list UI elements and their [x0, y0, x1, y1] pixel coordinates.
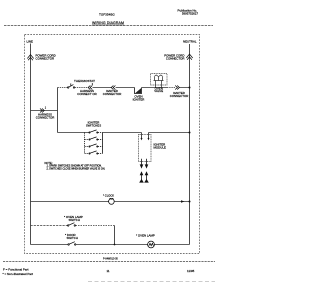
svg-text:MODULE: MODULE [154, 146, 166, 150]
power cord connector P2 (neutral side) [186, 54, 192, 60]
oven igniter (glowbar) [135, 88, 142, 94]
oven lamp switch [68, 223, 76, 227]
wire [76, 225, 115, 227]
wire to module [103, 132, 142, 134]
spark electrode [140, 172, 142, 175]
header rule [4, 25, 213, 27]
module pin N [148, 133, 150, 138]
harness connector 1 [40, 109, 44, 113]
svg-text:TGF354BG: TGF354BG [99, 12, 115, 16]
wire L1 bus [30, 44, 32, 245]
svg-text:SWITCHES: SWITCHES [86, 123, 101, 127]
svg-text:SWITCH: SWITCH [67, 236, 78, 240]
wire [93, 87, 112, 89]
junction [189, 132, 191, 134]
wire lamp switch row [31, 225, 68, 227]
svg-text:2: 2 [92, 83, 94, 86]
svg-text:* = Non-Illustrated Part: * = Non-Illustrated Part [3, 272, 34, 276]
svg-text:SWITCH: SWITCH [69, 218, 80, 222]
wire igniter switch row [58, 132, 90, 134]
wire [58, 87, 68, 89]
connector arrow [181, 200, 184, 202]
svg-text:11: 11 [106, 269, 109, 273]
svg-text:2. SWITCHES CLOSE WHEN BURNER: 2. SWITCHES CLOSE WHEN BURNER VALVE IS O… [47, 167, 106, 170]
svg-text:* OVEN LAMP: * OVEN LAMP [136, 233, 155, 237]
wire [75, 87, 88, 89]
wire clock row [31, 201, 109, 203]
svg-text:* CLOCK: * CLOCK [103, 193, 114, 197]
oven valve V1 [151, 74, 168, 86]
svg-text:1: 1 [45, 106, 47, 109]
harness connector 2 [88, 86, 92, 90]
igniter module U1 [139, 135, 152, 162]
svg-text:NEUTRAL: NEUTRAL [183, 40, 197, 44]
igniter connector right [175, 86, 179, 90]
power cord connector P1 (line side) [27, 55, 33, 61]
igniter switches (4 parallel spark switches) [85, 130, 103, 154]
svg-text:VALVE: VALVE [154, 89, 163, 93]
junction [114, 244, 116, 246]
svg-text:5995752627: 5995752627 [182, 12, 198, 16]
svg-text:11/95: 11/95 [187, 269, 195, 273]
svg-text:LINE: LINE [27, 40, 33, 44]
bottom faint dashes [88, 281, 215, 283]
wire [180, 87, 190, 89]
thermostat switch [68, 83, 75, 88]
junction [189, 87, 191, 89]
svg-text:IGNITER: IGNITER [133, 98, 145, 102]
oven lamp [148, 241, 155, 248]
clock motor [109, 198, 115, 204]
wire [114, 201, 189, 203]
wire [116, 87, 135, 89]
wire [154, 244, 189, 246]
junction [189, 201, 191, 203]
door switch [68, 242, 76, 246]
svg-text:CONNECTOR: CONNECTOR [170, 94, 189, 98]
svg-text:CONNECT OR: CONNECT OR [77, 92, 96, 96]
spark switch 3 [85, 146, 89, 148]
wire branch x57.5 [57, 88, 59, 133]
spark switch 2 [85, 139, 89, 141]
svg-text:CONNECTOR: CONNECTOR [36, 56, 55, 60]
svg-text:CONNECTOR: CONNECTOR [103, 92, 122, 96]
svg-text:CONNECTOR: CONNECTOR [166, 56, 185, 60]
wire neutral bus [189, 44, 191, 245]
module pin L [141, 133, 143, 138]
svg-text:CONNECTOR: CONNECTOR [36, 115, 55, 119]
module bottom pins / spark gaps [140, 159, 148, 182]
wire module to neutral [149, 132, 190, 134]
wire [76, 244, 148, 246]
spark switch 4 [85, 153, 89, 155]
svg-text:P-94W013-05: P-94W013-05 [103, 257, 118, 260]
wire [142, 87, 168, 89]
wire door row [31, 244, 69, 246]
footer rule [3, 261, 215, 263]
wire down to door row [114, 226, 116, 245]
igniter connector left [111, 86, 115, 90]
svg-text:WIRING DIAGRAM: WIRING DIAGRAM [92, 21, 124, 25]
spark electrode [145, 172, 147, 175]
wire harness row [31, 110, 58, 112]
diagram border frame [25, 35, 200, 254]
spark switch 1 [89, 132, 90, 133]
